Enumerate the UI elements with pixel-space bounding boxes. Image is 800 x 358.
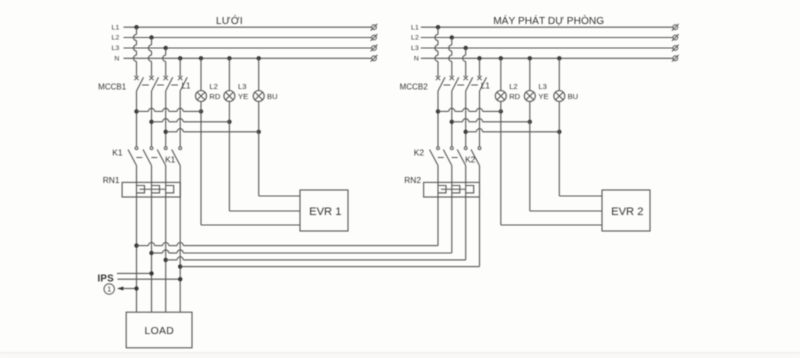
svg-text:RN1: RN1 [103,175,120,185]
svg-text:K2: K2 [465,154,476,164]
svg-text:L2: L2 [209,82,217,91]
svg-text:L1: L1 [481,81,490,90]
svg-text:L3: L3 [112,45,120,52]
svg-text:K2: K2 [414,148,425,158]
svg-text:MCCB2: MCCB2 [400,82,429,91]
svg-text:RD: RD [509,92,520,101]
svg-text:L3: L3 [411,45,419,52]
svg-text:L3: L3 [538,82,546,91]
svg-text:YE: YE [538,92,548,101]
svg-text:LƯỚI: LƯỚI [216,14,243,27]
svg-text:1: 1 [107,285,111,294]
svg-text:L1: L1 [112,24,120,31]
svg-text:RD: RD [209,92,220,101]
svg-text:YE: YE [238,92,248,101]
svg-text:L3: L3 [238,82,246,91]
svg-text:IPS: IPS [98,273,115,284]
svg-text:MÁY PHÁT DỰ PHÒNG: MÁY PHÁT DỰ PHÒNG [493,14,604,27]
svg-text:K1: K1 [165,154,176,164]
svg-text:N: N [114,56,119,63]
svg-text:K1: K1 [112,148,123,158]
svg-text:RN2: RN2 [404,175,421,185]
svg-text:BU: BU [267,92,278,101]
svg-text:L1: L1 [182,81,191,90]
svg-text:L1: L1 [411,24,419,31]
svg-text:EVR 2: EVR 2 [611,206,643,218]
svg-text:MCCB1: MCCB1 [98,82,127,91]
svg-text:L2: L2 [411,35,419,42]
svg-text:LOAD: LOAD [145,326,175,337]
svg-text:L2: L2 [112,35,120,42]
svg-text:L2: L2 [509,82,517,91]
svg-text:BU: BU [568,92,579,101]
svg-text:EVR 1: EVR 1 [309,206,341,218]
svg-text:N: N [414,56,419,63]
